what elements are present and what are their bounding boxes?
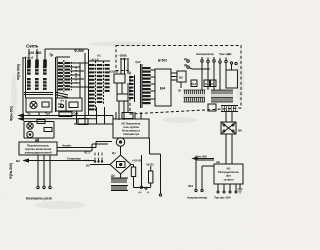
svg-text:Амперметр: Амперметр xyxy=(195,52,214,56)
svg-text:~2-1-2: ~2-1-2 xyxy=(90,58,99,62)
svg-text:Контакты реле: Контакты реле xyxy=(26,197,52,201)
svg-text:Тр4: Тр4 xyxy=(191,82,196,86)
svg-text:Аккумулятор: Аккумулятор xyxy=(186,196,207,200)
svg-text:~Ч-Ч: ~Ч-Ч xyxy=(83,159,89,163)
svg-text:АБ-В1: АБ-В1 xyxy=(146,163,154,167)
svg-text:Ф(0м-500): Ф(0м-500) xyxy=(9,163,13,179)
svg-text:Сеть: Сеть xyxy=(26,44,39,49)
svg-text:Тр1: Тр1 xyxy=(45,112,50,116)
svg-text:+ЧЗ-ЧЗ: +ЧЗ-ЧЗ xyxy=(132,159,141,163)
svg-text:В3: В3 xyxy=(35,139,39,143)
svg-text:В2: В2 xyxy=(16,159,20,163)
svg-text:Анодн.: Анодн. xyxy=(61,144,72,148)
svg-text:АЗ(В5): АЗ(В5) xyxy=(109,70,118,74)
svg-text:Ф-500: Ф-500 xyxy=(74,49,84,53)
svg-text:Др: Др xyxy=(110,174,115,178)
svg-text:Рч: Рч xyxy=(211,82,215,86)
svg-text:Три-ЧДБ: Три-ЧДБ xyxy=(219,52,232,56)
svg-text:АБ Переключа-: АБ Переключа- xyxy=(121,122,141,126)
svg-text:Три фо 30А: Три фо 30А xyxy=(214,196,231,200)
svg-text:~380В: ~380В xyxy=(118,54,128,58)
svg-text:150 4Ч: 150 4Ч xyxy=(120,57,128,61)
svg-text:В6: В6 xyxy=(238,129,242,133)
svg-text:В5: В5 xyxy=(179,76,183,80)
svg-text:220 380: 220 380 xyxy=(28,51,41,55)
svg-text:-Ч: -Ч xyxy=(146,191,149,195)
svg-text:Тр: Тр xyxy=(27,112,31,116)
svg-text:2б: 2б xyxy=(178,89,182,93)
svg-text:а0 а1 а2: а0 а1 а2 xyxy=(24,56,34,60)
svg-text:В4: В4 xyxy=(160,86,166,91)
svg-text:Вч: Вч xyxy=(112,151,116,155)
svg-text:АБ: АБ xyxy=(216,160,220,164)
svg-text:электродвигателей: электродвигателей xyxy=(25,151,52,155)
svg-text:+Ч: +Ч xyxy=(138,191,141,195)
svg-text:Рч: Рч xyxy=(205,82,209,86)
svg-text:Тр4: Тр4 xyxy=(73,112,78,116)
svg-text:Шкч-500: Шкч-500 xyxy=(195,155,207,159)
svg-text:ЧС З: ЧС З xyxy=(84,151,90,155)
svg-text:тр-фазн: тр-фазн xyxy=(224,178,234,182)
svg-text:АБ: АБ xyxy=(227,167,231,171)
svg-text:ВЗ: ВЗ xyxy=(86,164,90,168)
svg-text:В-501: В-501 xyxy=(158,59,167,63)
svg-text:Вольтметра и: Вольтметра и xyxy=(122,129,140,133)
svg-text:Тр3: Тр3 xyxy=(135,60,141,64)
svg-text:Ф(0м-500): Ф(0м-500) xyxy=(17,64,21,80)
svg-text:Амперметра: Амперметра xyxy=(123,132,140,136)
svg-text:фаз: фаз xyxy=(226,174,232,178)
svg-text:Ф13: Ф13 xyxy=(188,184,194,188)
svg-text:Бч: Бч xyxy=(61,99,65,103)
svg-text:Стартер: Стартер xyxy=(67,157,81,161)
svg-text:Распределитель: Распределитель xyxy=(218,170,239,174)
svg-text:А1: А1 xyxy=(97,54,101,58)
